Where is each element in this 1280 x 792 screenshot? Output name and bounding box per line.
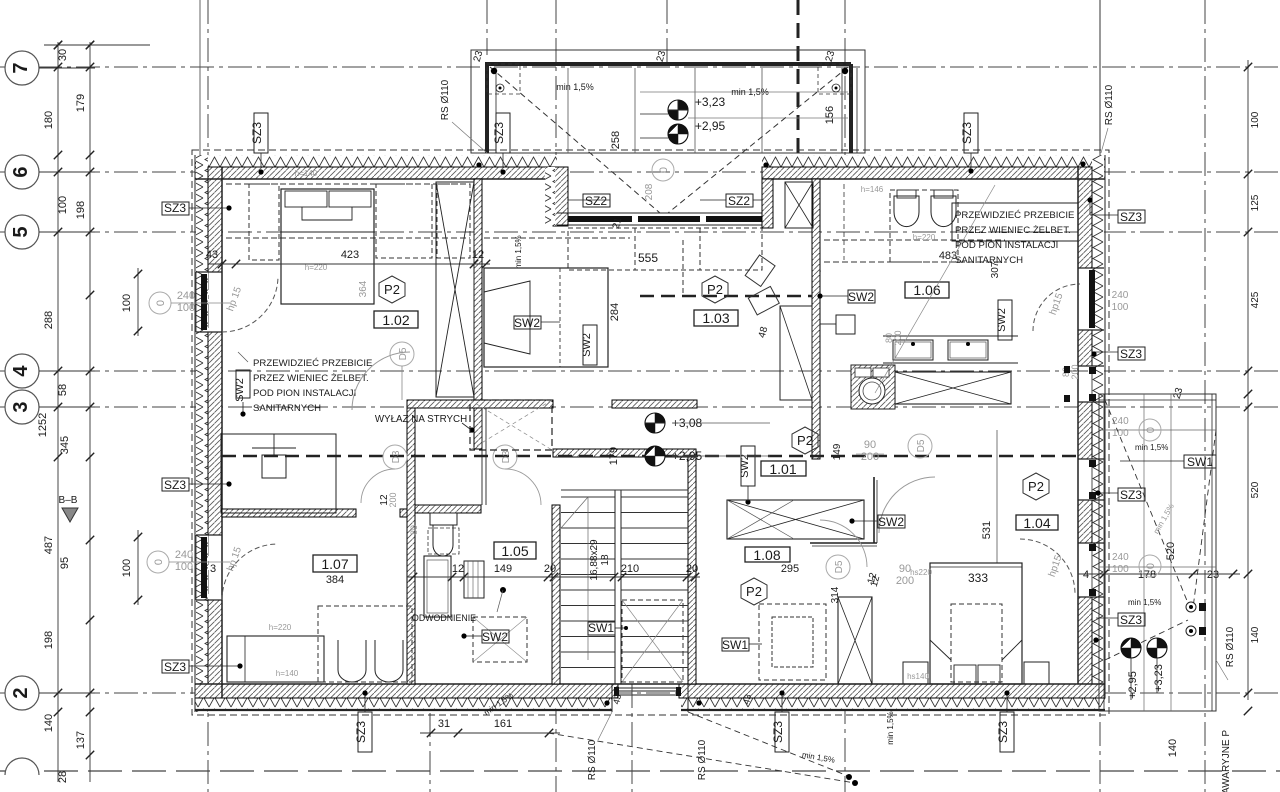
svg-text:179: 179 [75,94,87,112]
svg-text:423: 423 [341,249,359,261]
svg-text:240: 240 [1112,416,1129,427]
svg-text:1.01: 1.01 [769,461,796,477]
svg-text:1.05: 1.05 [501,543,528,559]
svg-text:140: 140 [1250,626,1261,643]
svg-text:SW1: SW1 [1187,455,1213,469]
svg-text:0: 0 [1145,427,1157,433]
svg-text:425: 425 [1250,291,1261,308]
svg-text:P2: P2 [797,433,813,448]
svg-text:SW2: SW2 [514,316,540,330]
svg-text:min 1,5%: min 1,5% [556,82,594,92]
svg-text:20: 20 [686,563,698,575]
svg-text:28: 28 [57,771,69,783]
svg-text:SZ3: SZ3 [164,478,186,492]
svg-text:1.07: 1.07 [321,556,348,572]
svg-text:555: 555 [638,251,658,265]
svg-text:198: 198 [43,631,55,649]
svg-text:0: 0 [1145,563,1157,569]
svg-text:12: 12 [379,494,390,506]
svg-text:12: 12 [452,563,464,575]
svg-text:4: 4 [10,365,32,377]
svg-text:100: 100 [1250,111,1261,128]
svg-text:SW2: SW2 [482,630,508,644]
svg-text:SZ3: SZ3 [492,122,506,144]
svg-text:min 1,5%: min 1,5% [1135,443,1168,452]
svg-text:hs140: hs140 [907,672,929,681]
svg-text:31: 31 [438,718,450,730]
svg-text:+2,95: +2,95 [695,119,726,133]
svg-text:125: 125 [1250,194,1261,211]
svg-text:90: 90 [864,439,876,451]
svg-text:P2: P2 [707,282,723,297]
svg-text:ODWODNIENIE: ODWODNIENIE [412,613,476,623]
svg-text:179: 179 [608,447,620,465]
svg-text:1.04: 1.04 [1023,515,1050,531]
svg-text:SZ2: SZ2 [728,194,750,208]
svg-text:h=140: h=140 [276,669,299,678]
svg-text:240: 240 [1112,290,1129,301]
svg-text:3: 3 [10,401,32,412]
svg-text:240: 240 [177,290,195,302]
svg-text:100: 100 [1112,428,1129,439]
svg-text:100: 100 [177,302,195,314]
svg-text:D5: D5 [398,347,409,360]
svg-text:333: 333 [968,571,988,585]
svg-text:295: 295 [781,563,799,575]
svg-text:SZ3: SZ3 [250,122,264,144]
svg-text:200: 200 [861,451,879,463]
svg-text:5: 5 [10,226,32,237]
svg-text:WYŁAZ NA STRYCH: WYŁAZ NA STRYCH [375,414,467,425]
svg-text:SZ3: SZ3 [164,201,186,215]
svg-text:137: 137 [75,731,87,749]
svg-text:min 1,5%: min 1,5% [514,235,523,268]
svg-text:+2,95: +2,95 [1127,671,1139,699]
svg-text:520: 520 [1250,481,1261,498]
svg-text:POD PION INSTALACJI: POD PION INSTALACJI [253,388,356,399]
svg-text:3: 3 [210,563,216,575]
svg-text:20: 20 [544,563,556,575]
svg-text:P2: P2 [746,584,762,599]
svg-text:180: 180 [43,111,55,129]
svg-text:SZ3: SZ3 [1120,210,1142,224]
svg-text:P2: P2 [384,282,400,297]
svg-text:+3,23: +3,23 [695,95,726,109]
svg-text:364: 364 [358,280,369,297]
svg-text:200: 200 [1070,364,1080,379]
svg-text:D3: D3 [391,450,402,463]
svg-text:h=220: h=220 [913,233,936,242]
svg-text:min 1,5%: min 1,5% [886,711,895,744]
svg-text:100: 100 [175,561,193,573]
svg-text:23: 23 [1207,569,1219,581]
svg-text:100: 100 [1112,302,1129,313]
svg-text:140: 140 [1167,739,1179,757]
svg-text:SZ3: SZ3 [1120,488,1142,502]
svg-text:487: 487 [43,536,55,554]
svg-text:1.06: 1.06 [913,282,940,298]
svg-text:0: 0 [658,167,670,173]
svg-text:1.02: 1.02 [382,312,409,328]
svg-text:0: 0 [155,300,167,306]
svg-text:1252: 1252 [37,413,49,437]
svg-text:198: 198 [75,201,87,219]
svg-text:RS Ø110: RS Ø110 [1225,626,1236,667]
svg-text:D5: D5 [834,560,845,573]
svg-text:B–B: B–B [59,495,78,506]
svg-text:258: 258 [610,131,622,149]
svg-text:1.08: 1.08 [753,547,780,563]
svg-text:30: 30 [57,49,69,61]
svg-text:307: 307 [990,261,1001,278]
svg-text:2: 2 [10,687,32,698]
svg-text:18: 18 [600,554,611,566]
svg-text:200: 200 [893,330,903,345]
svg-text:531: 531 [981,521,993,539]
svg-text:156: 156 [824,106,836,124]
svg-text:100: 100 [1112,564,1129,575]
svg-text:PRZEZ WIENIEC ŻELBET.: PRZEZ WIENIEC ŻELBET. [955,225,1071,236]
svg-text:AWARYJNE P: AWARYJNE P [1221,730,1232,792]
svg-text:345: 345 [59,436,71,454]
svg-text:min 1,5%: min 1,5% [1128,598,1161,607]
svg-text:SZ3: SZ3 [960,122,974,144]
svg-text:149: 149 [494,563,512,575]
svg-text:520: 520 [1165,542,1177,560]
svg-text:h=220: h=220 [269,623,292,632]
svg-text:SW1: SW1 [588,621,614,635]
svg-text:RS Ø110: RS Ø110 [587,739,598,780]
svg-text:PRZEWIDZIEĆ PRZEBICIE: PRZEWIDZIEĆ PRZEBICIE [955,210,1074,221]
svg-text:SZ3: SZ3 [1120,347,1142,361]
svg-text:0: 0 [153,559,165,565]
svg-text:SW2: SW2 [848,290,874,304]
svg-text:PRZEWIDZIEĆ PRZEBICIE: PRZEWIDZIEĆ PRZEBICIE [253,358,372,369]
svg-text:7: 7 [10,62,32,73]
svg-text:D5: D5 [916,439,927,452]
svg-text:100: 100 [121,294,133,312]
svg-text:43: 43 [206,249,218,261]
svg-text:100: 100 [57,196,69,214]
svg-text:4: 4 [1083,569,1089,581]
svg-text:161: 161 [494,718,512,730]
svg-text:SZ3: SZ3 [1120,613,1142,627]
svg-text:95: 95 [59,557,71,569]
svg-text:P2: P2 [1028,479,1044,494]
svg-text:1.03: 1.03 [702,310,729,326]
svg-text:h=146: h=146 [861,185,884,194]
svg-text:h=140: h=140 [295,169,318,178]
svg-text:SANITARNYCH: SANITARNYCH [253,403,321,414]
svg-text:384: 384 [326,574,344,586]
svg-text:D3: D3 [501,450,512,463]
svg-text:RS Ø110: RS Ø110 [440,79,451,120]
svg-text:6: 6 [10,166,32,177]
svg-text:80: 80 [409,525,419,535]
svg-text:SW1: SW1 [722,638,748,652]
svg-text:SW2: SW2 [878,515,904,529]
svg-text:149: 149 [832,443,843,460]
svg-text:+3,23: +3,23 [1153,664,1165,692]
svg-text:min 1,5%: min 1,5% [731,87,769,97]
svg-text:SZ2: SZ2 [585,194,607,208]
svg-text:16,88x29: 16,88x29 [589,539,600,581]
svg-text:SZ3: SZ3 [354,721,368,743]
svg-text:RS Ø110: RS Ø110 [697,739,708,780]
svg-text:100: 100 [121,559,133,577]
svg-text:58: 58 [57,384,69,396]
svg-text:208: 208 [644,183,655,200]
svg-text:140: 140 [43,714,55,732]
svg-text:hs220: hs220 [910,568,932,577]
svg-text:SZ3: SZ3 [164,660,186,674]
svg-text:210: 210 [621,563,639,575]
svg-text:SZ3: SZ3 [771,721,785,743]
svg-text:288: 288 [43,311,55,329]
svg-text:RS Ø110: RS Ø110 [1104,84,1115,125]
svg-text:284: 284 [609,303,621,321]
svg-text:SZ3: SZ3 [996,721,1010,743]
svg-text:240: 240 [175,549,193,561]
svg-text:240: 240 [1112,552,1129,563]
svg-text:PRZEZ WIENIEC ŻELBET.: PRZEZ WIENIEC ŻELBET. [253,373,369,384]
svg-text:POD PION INSTALACJI: POD PION INSTALACJI [955,240,1058,251]
